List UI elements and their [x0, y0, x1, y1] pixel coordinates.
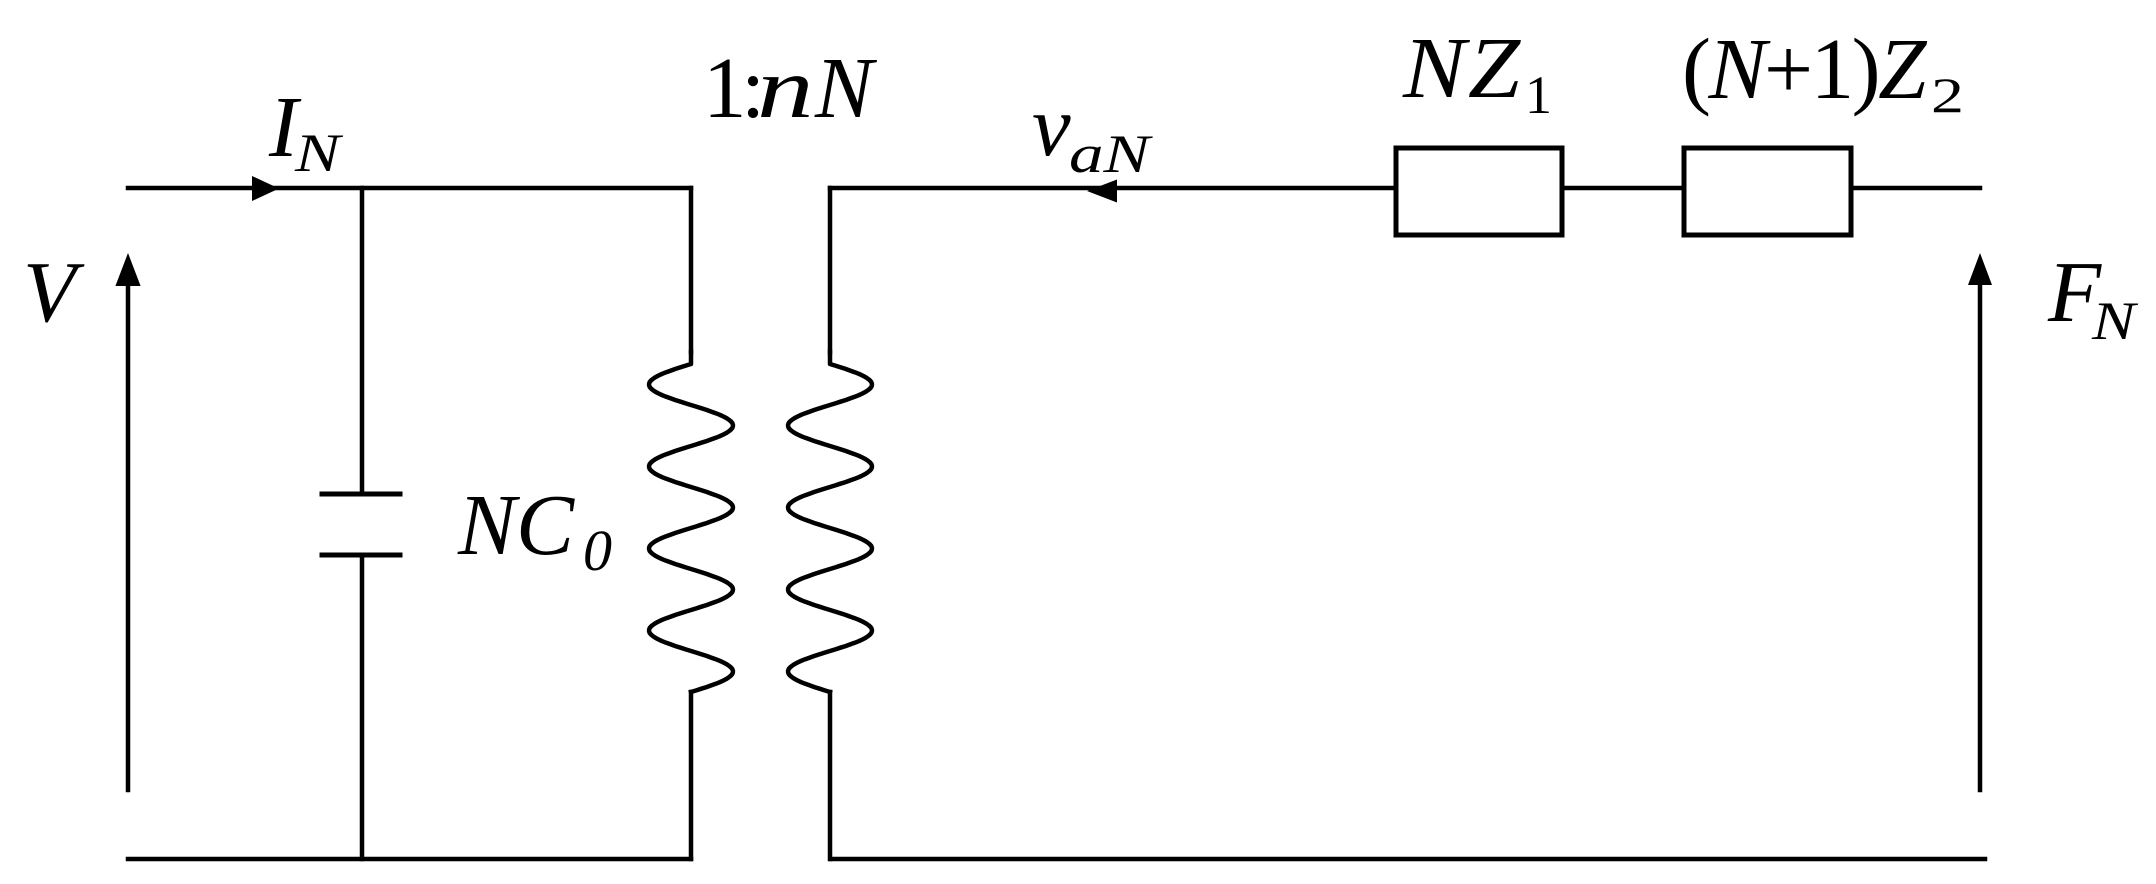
- wire: top-right horizontal from secondary to output: [830, 186, 1980, 191]
- svg-text:0: 0: [583, 518, 612, 583]
- svg-text:N: N: [2091, 291, 2139, 351]
- svg-text:1: 1: [703, 39, 747, 136]
- transformer primary winding (left coil): [649, 352, 733, 692]
- svg-text:2: 2: [1931, 68, 1964, 124]
- wire: secondary bottom vertical stub: [828, 692, 833, 859]
- wire: primary bottom vertical stub: [689, 692, 694, 859]
- svg-text:N: N: [294, 124, 344, 183]
- arrowhead: FN arrow (up): [1968, 253, 1992, 285]
- svg-text:N: N: [814, 39, 878, 136]
- wire: primary top vertical stub: [689, 188, 694, 352]
- capacitor NC0 top lead: [360, 188, 365, 494]
- svg-text:n: n: [757, 39, 814, 136]
- arrow V (input voltage) shaft: [126, 284, 131, 790]
- transformer secondary winding (right coil): [788, 352, 872, 692]
- svg-text:v: v: [1032, 77, 1071, 174]
- wire: top-left horizontal from input to transformer primary: [128, 186, 691, 191]
- capacitor NC0 bottom plate: [322, 553, 400, 558]
- wire: bottom-right horizontal return: [831, 857, 1985, 862]
- arrowhead: vaN direction (left): [1087, 180, 1117, 203]
- svg-text:aN: aN: [1069, 125, 1154, 184]
- capacitor NC0 bottom lead: [360, 555, 365, 859]
- capacitor NC0 top plate: [322, 492, 400, 497]
- svg-text:(N+1)Z: (N+1)Z: [1682, 20, 1928, 117]
- svg-text:1: 1: [1525, 65, 1552, 125]
- resistor NZ1 body: [1396, 148, 1562, 235]
- svg-text:NC: NC: [457, 476, 575, 573]
- svg-text:NZ: NZ: [1402, 19, 1522, 116]
- resistor (N+1)Z2 body: [1684, 148, 1851, 235]
- arrowhead: V arrow (up): [115, 253, 140, 286]
- wire: secondary top vertical stub: [828, 188, 833, 352]
- arrowhead: current IN direction (right): [252, 176, 279, 201]
- arrow FN (output) shaft: [1978, 284, 1983, 790]
- svg-text:V: V: [23, 243, 85, 340]
- wire: bottom-left horizontal return: [128, 857, 691, 862]
